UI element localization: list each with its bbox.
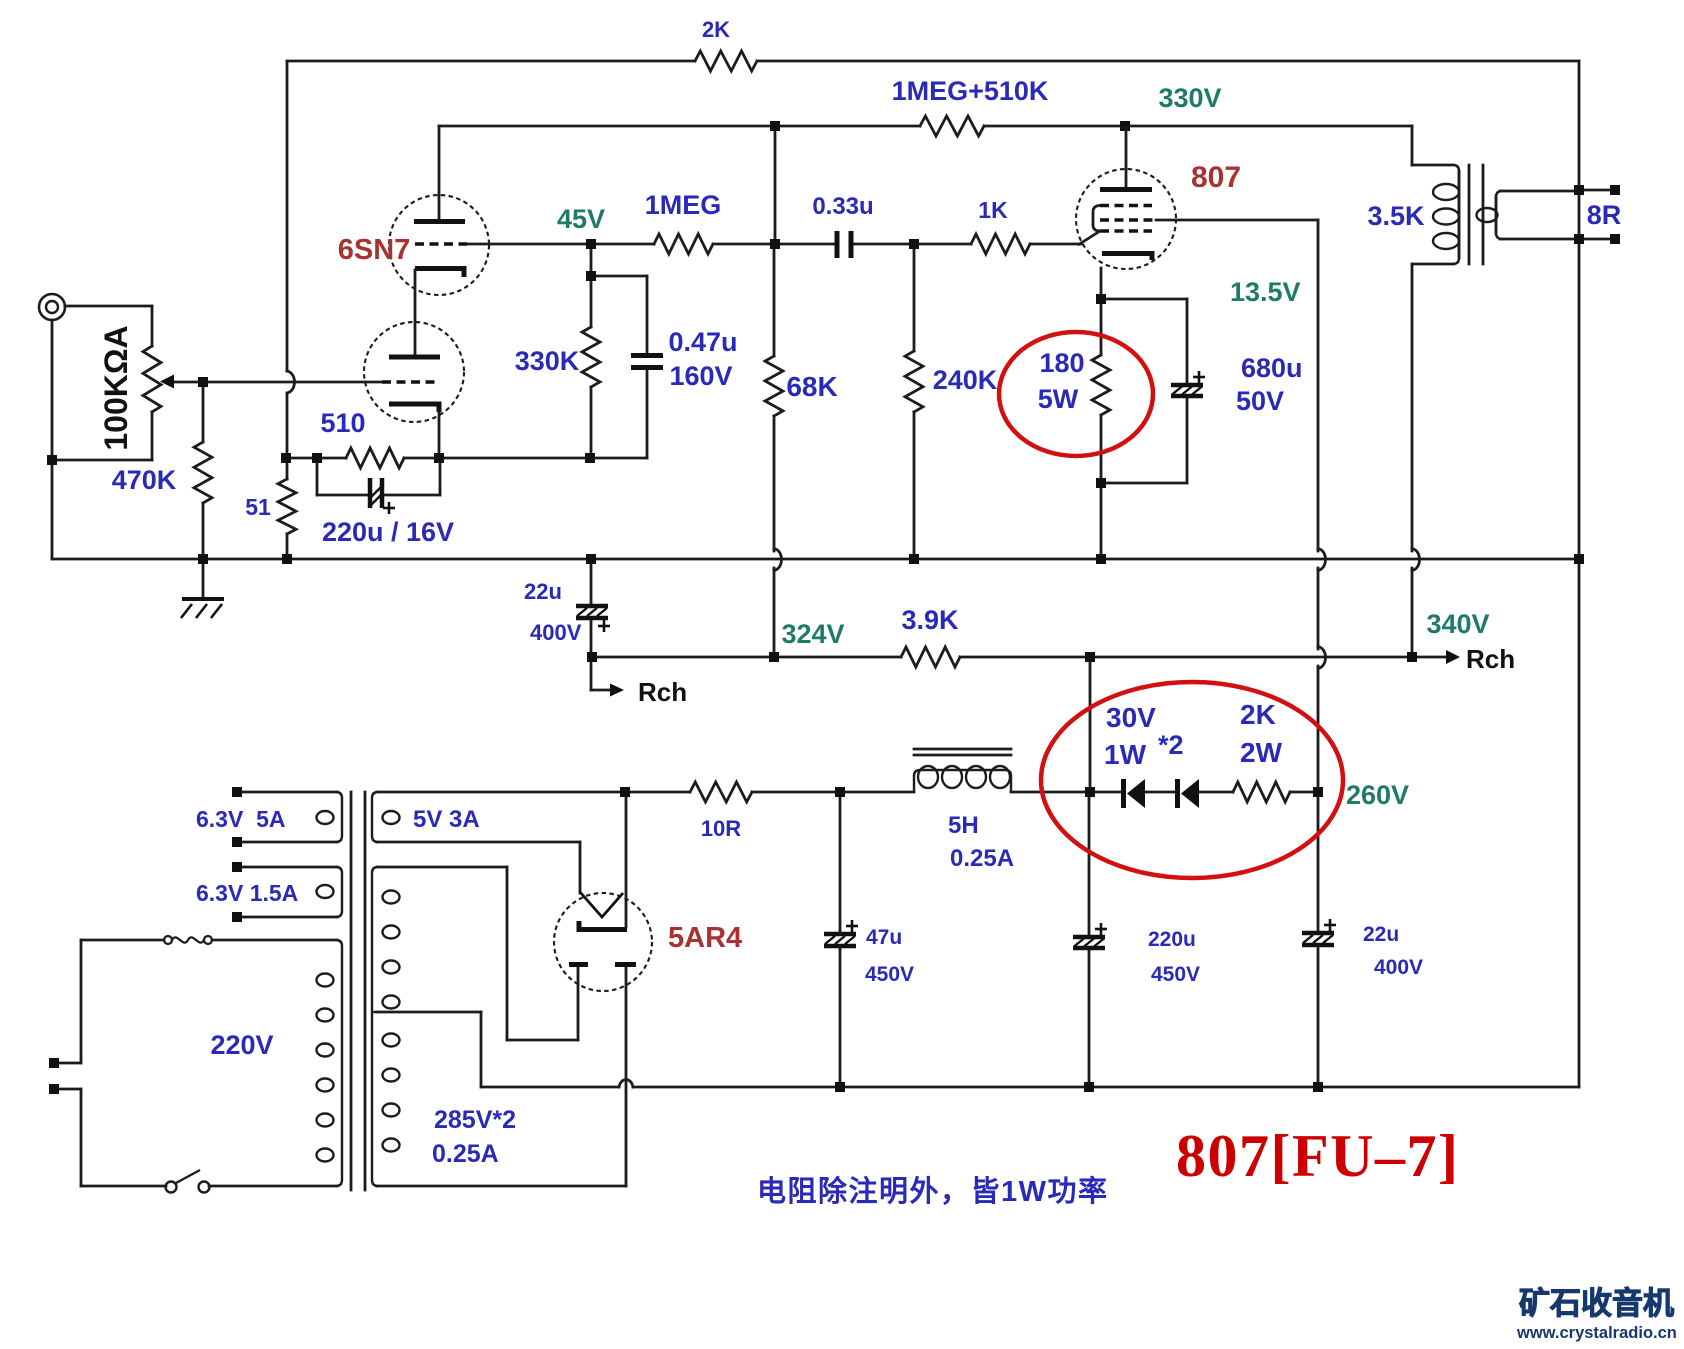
svg-text:450V: 450V <box>1151 963 1200 986</box>
svg-text:50V: 50V <box>1236 386 1284 416</box>
svg-text:220u: 220u <box>1148 928 1196 951</box>
svg-text:3.9K: 3.9K <box>901 605 959 635</box>
svg-text:Rch: Rch <box>1466 644 1515 674</box>
svg-text:0.47u: 0.47u <box>668 327 737 357</box>
svg-text:1W: 1W <box>1104 739 1147 770</box>
svg-text:5AR4: 5AR4 <box>668 922 742 954</box>
svg-text:100KΩA: 100KΩA <box>98 325 134 450</box>
svg-text:1K: 1K <box>978 197 1008 223</box>
svg-text:324V: 324V <box>781 619 844 649</box>
svg-text:10R: 10R <box>701 816 741 841</box>
svg-text:*2: *2 <box>1158 730 1184 760</box>
svg-text:0.25A: 0.25A <box>950 845 1014 872</box>
svg-text:45V: 45V <box>557 204 605 234</box>
svg-text:5H: 5H <box>948 812 979 839</box>
svg-text:68K: 68K <box>786 371 837 402</box>
svg-text:240K: 240K <box>933 365 998 395</box>
svg-text:13.5V: 13.5V <box>1230 277 1301 307</box>
svg-text:Rch: Rch <box>638 677 687 707</box>
svg-text:220u / 16V: 220u / 16V <box>322 517 454 547</box>
svg-text:680u: 680u <box>1241 353 1303 383</box>
svg-text:450V: 450V <box>865 963 914 986</box>
svg-text:5V 3A: 5V 3A <box>413 806 480 833</box>
svg-text:2K: 2K <box>1240 699 1276 730</box>
svg-text:51: 51 <box>245 494 271 520</box>
svg-text:807: 807 <box>1191 161 1241 194</box>
svg-text:160V: 160V <box>669 361 732 391</box>
svg-text:www.crystalradio.cn: www.crystalradio.cn <box>1516 1324 1677 1342</box>
svg-text:400V: 400V <box>1374 956 1423 979</box>
svg-text:6.3V 1.5A: 6.3V 1.5A <box>196 880 298 906</box>
svg-text:8R: 8R <box>1587 200 1622 230</box>
svg-text:22u: 22u <box>1363 923 1399 946</box>
svg-text:260V: 260V <box>1346 780 1409 810</box>
svg-text:330K: 330K <box>515 346 580 376</box>
svg-text:0.25A: 0.25A <box>432 1140 499 1168</box>
svg-text:470K: 470K <box>112 465 177 495</box>
svg-text:矿石收音机: 矿石收音机 <box>1519 1286 1674 1321</box>
svg-text:47u: 47u <box>866 926 902 949</box>
svg-text:340V: 340V <box>1426 609 1489 639</box>
svg-text:1MEG: 1MEG <box>645 190 722 220</box>
svg-text:6SN7: 6SN7 <box>338 234 411 266</box>
svg-text:1MEG+510K: 1MEG+510K <box>892 76 1049 106</box>
svg-text:5W: 5W <box>1038 384 1079 414</box>
svg-text:2K: 2K <box>702 17 730 42</box>
svg-text:807[FU–7]: 807[FU–7] <box>1176 1123 1459 1189</box>
svg-text:3.5K: 3.5K <box>1367 201 1425 231</box>
svg-text:2W: 2W <box>1240 737 1283 768</box>
svg-text:180: 180 <box>1039 348 1084 378</box>
svg-text:220V: 220V <box>210 1030 273 1060</box>
svg-text:22u: 22u <box>524 579 562 604</box>
svg-text:400V: 400V <box>530 620 582 645</box>
svg-text:电阻除注明外，皆1W功率: 电阻除注明外，皆1W功率 <box>757 1174 1109 1208</box>
svg-text:30V: 30V <box>1106 702 1156 733</box>
svg-text:6.3V 5A: 6.3V 5A <box>196 806 286 832</box>
svg-text:330V: 330V <box>1158 83 1221 113</box>
svg-text:285V*2: 285V*2 <box>434 1106 516 1134</box>
svg-text:510: 510 <box>320 408 365 438</box>
svg-text:0.33u: 0.33u <box>812 193 873 220</box>
